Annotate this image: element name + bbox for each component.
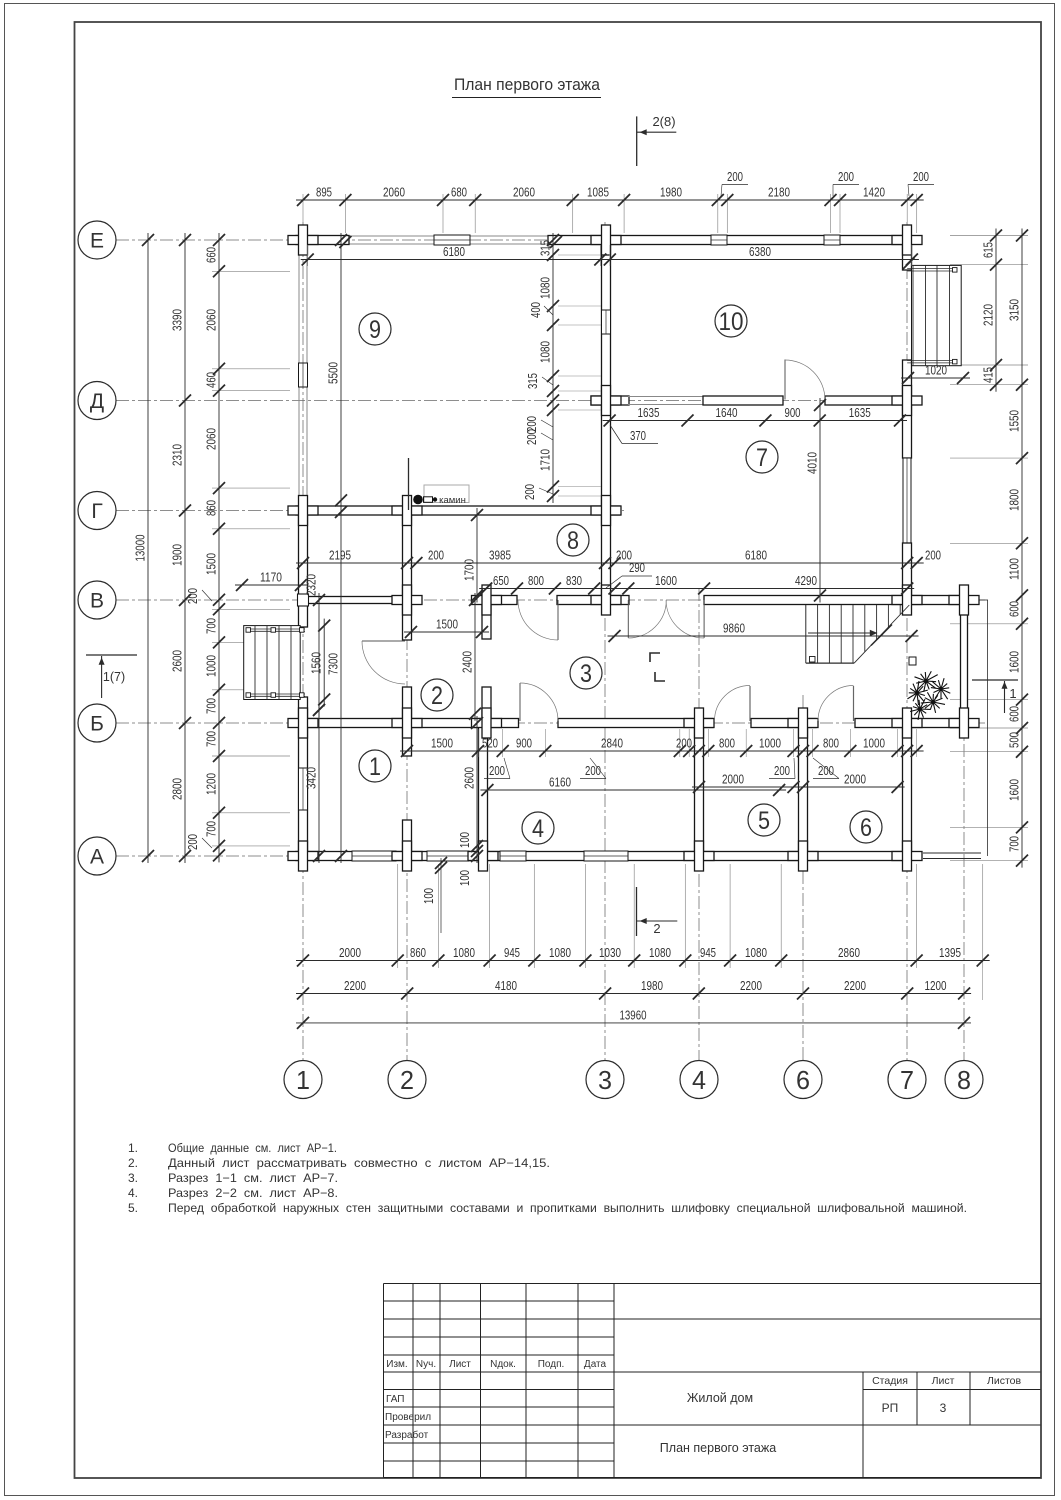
wall V seg0 porch	[307, 597, 403, 604]
svg-text:1080: 1080	[538, 277, 553, 299]
cross 4-A	[684, 852, 714, 861]
svg-text:2: 2	[653, 921, 660, 936]
svg-text:13960: 13960	[620, 1007, 647, 1022]
witness lines top chain	[302, 194, 304, 233]
svg-text:3150: 3150	[1007, 299, 1022, 321]
axis line 7	[906, 222, 908, 1060]
axis line 1	[302, 222, 304, 1060]
svg-text:860: 860	[410, 945, 426, 960]
svg-text:2: 2	[400, 1065, 414, 1095]
axis line D	[116, 400, 913, 402]
gray veranda wall axis1 E-G	[298, 248, 300, 503]
svg-text:5: 5	[758, 807, 770, 835]
svg-text:200: 200	[428, 548, 444, 563]
svg-text:1000: 1000	[759, 736, 781, 751]
svg-text:2060: 2060	[513, 185, 535, 200]
svg-text:1900: 1900	[170, 544, 185, 566]
svg-text:700: 700	[204, 821, 219, 837]
svg-text:945: 945	[700, 945, 716, 960]
double door V 1600 left leaf	[627, 600, 629, 638]
svg-text:Общие данные см. лист АР−1: Общие данные см. лист АР−1.	[168, 1141, 337, 1155]
internal stair room3	[805, 605, 807, 663]
wall E left	[296, 236, 349, 245]
svg-text:3420: 3420	[304, 767, 319, 789]
svg-text:2060: 2060	[204, 309, 219, 331]
svg-text:Разработ: Разработ	[385, 1429, 429, 1441]
svg-text:План первого этажа: План первого этажа	[454, 76, 601, 94]
svg-text:Nуч.: Nуч.	[416, 1359, 436, 1370]
section mark 2(8) top	[636, 116, 638, 166]
svg-text:200: 200	[727, 169, 743, 184]
dim 2400 room2	[474, 593, 476, 721]
cross 7-B	[892, 719, 922, 728]
axis line A	[116, 855, 913, 857]
svg-text:800: 800	[823, 736, 839, 751]
chain 650-800-830 y588	[479, 588, 914, 590]
svg-text:Стадия: Стадия	[872, 1375, 908, 1387]
svg-text:2310: 2310	[170, 444, 185, 466]
left chain total 13000	[147, 233, 149, 863]
title block	[384, 1283, 615, 1285]
bottom chain axes	[296, 993, 971, 995]
wall axis8 V-B	[961, 600, 968, 723]
svg-text:200: 200	[838, 169, 854, 184]
section mark 1(7) left	[86, 654, 137, 656]
dim 4010 room7	[819, 398, 821, 603]
svg-text:700: 700	[204, 618, 219, 634]
cross 2-A	[392, 852, 422, 861]
witness lines bottom chain	[397, 864, 399, 968]
svg-text:Лист: Лист	[932, 1375, 955, 1387]
svg-text:4.: 4.	[128, 1186, 138, 1200]
wall V terrace	[911, 596, 964, 605]
window band D (gray)	[628, 396, 704, 398]
wall D seg2	[703, 396, 783, 405]
svg-text:1080: 1080	[453, 945, 475, 960]
wall E right	[548, 236, 912, 245]
svg-text:4: 4	[532, 815, 544, 843]
svg-text:315: 315	[525, 373, 540, 389]
wall B seg3	[751, 719, 816, 728]
svg-text:5.: 5.	[128, 1201, 138, 1215]
svg-text:700: 700	[1007, 836, 1022, 852]
door V 800	[557, 600, 559, 640]
svg-text:900: 900	[785, 405, 801, 420]
svg-text:200: 200	[489, 763, 505, 778]
dim 1170 porch	[235, 584, 308, 586]
cross 1-B	[288, 719, 318, 728]
svg-text:600: 600	[1007, 706, 1022, 722]
wall axis2 lower	[403, 820, 412, 856]
svg-text:290: 290	[629, 560, 645, 575]
section mark 2 bottom	[636, 887, 638, 936]
svg-text:1: 1	[1009, 686, 1016, 701]
right chain detail stair	[995, 229, 997, 392]
svg-text:370: 370	[630, 428, 646, 443]
svg-text:В: В	[90, 590, 104, 613]
dim 6160 room4	[480, 789, 786, 791]
svg-text:415: 415	[981, 367, 996, 383]
svg-text:1080: 1080	[649, 945, 671, 960]
svg-text:1(7): 1(7)	[103, 670, 125, 684]
door room1 axis2	[362, 640, 405, 642]
axis circles bottom	[284, 1061, 322, 1099]
wall axis4 B-A	[695, 723, 704, 856]
svg-text:1420: 1420	[863, 185, 885, 200]
svg-text:100: 100	[457, 870, 472, 886]
svg-text:РП: РП	[882, 1401, 899, 1415]
svg-text:7300: 7300	[326, 653, 341, 675]
cross 2-V	[392, 596, 422, 605]
svg-text:3: 3	[940, 1401, 947, 1415]
svg-text:900: 900	[516, 736, 532, 751]
svg-text:Nдок.: Nдок.	[490, 1359, 516, 1370]
axis line 4	[698, 588, 700, 1060]
svg-text:200: 200	[913, 169, 929, 184]
svg-text:2000: 2000	[844, 772, 866, 787]
svg-text:3985: 3985	[489, 548, 511, 563]
dim 1560 stair	[323, 619, 325, 707]
terrace edge thin at V	[979, 599, 988, 601]
svg-text:200: 200	[676, 736, 692, 751]
block at V on axis1 wall	[298, 594, 309, 606]
svg-text:2(8): 2(8)	[652, 114, 675, 129]
svg-text:4290: 4290	[795, 573, 817, 588]
window on axis1 wall below B	[299, 768, 308, 810]
svg-text:1200: 1200	[204, 773, 219, 795]
witness lines B chain	[477, 729, 479, 757]
wall axis7 window-V	[903, 543, 912, 600]
wall V seg2	[557, 596, 629, 605]
svg-text:200: 200	[585, 763, 601, 778]
svg-text:460: 460	[204, 372, 219, 388]
svg-text:1080: 1080	[745, 945, 767, 960]
dim 6180 room9	[301, 259, 608, 261]
svg-text:315: 315	[538, 240, 553, 256]
dim 9860	[608, 635, 919, 637]
svg-text:2200: 2200	[740, 978, 762, 993]
svg-text:7: 7	[756, 444, 768, 472]
svg-text:2400: 2400	[460, 651, 475, 673]
cross V stub	[472, 596, 502, 605]
svg-text:ГАП: ГАП	[386, 1394, 405, 1405]
svg-text:6: 6	[860, 814, 872, 842]
wall axis1 G-stair	[299, 511, 308, 628]
axis line B	[116, 722, 985, 724]
svg-text:Перед обработкой наружных с: Перед обработкой наружных стен защитными…	[168, 1201, 967, 1215]
terrace south edge double line	[923, 852, 981, 854]
svg-text:400: 400	[528, 302, 543, 318]
svg-text:1: 1	[369, 753, 381, 781]
svg-text:4180: 4180	[495, 978, 517, 993]
wall A	[296, 852, 912, 861]
vertical chain x553 windows room9	[552, 233, 554, 503]
cross 7-D	[892, 396, 922, 405]
svg-text:10: 10	[719, 308, 744, 336]
window A1	[352, 851, 396, 861]
furniture corner marks room3	[650, 653, 660, 662]
cross 1-A	[288, 852, 318, 861]
svg-text:1600: 1600	[655, 573, 677, 588]
wall B seg4	[855, 719, 964, 728]
svg-text:1200: 1200	[925, 978, 947, 993]
svg-text:5500: 5500	[326, 362, 341, 384]
window on x606 wall	[602, 310, 611, 334]
right chain outer	[1021, 229, 1023, 868]
witness for 6180/6380	[307, 245, 309, 266]
svg-text:1500: 1500	[431, 736, 453, 751]
svg-text:Жилой дом: Жилой дом	[687, 1391, 753, 1405]
bottom chain total 13960	[296, 1022, 971, 1024]
axis line 8	[963, 590, 965, 1060]
svg-text:100: 100	[421, 888, 436, 904]
cross A stub	[468, 852, 498, 861]
bottom chain detail	[296, 960, 990, 962]
svg-text:План первого этажа: План первого этажа	[660, 1441, 776, 1455]
svg-text:1170: 1170	[260, 570, 282, 585]
axis line 2	[406, 505, 408, 1060]
svg-text:1080: 1080	[549, 945, 571, 960]
svg-text:1085: 1085	[587, 185, 609, 200]
wall D seg3	[825, 396, 912, 405]
axis circles left	[78, 221, 116, 259]
top-right external stair	[912, 265, 962, 365]
svg-text:3: 3	[598, 1065, 612, 1095]
wall B seg2	[558, 719, 713, 728]
svg-text:1600: 1600	[1007, 651, 1022, 673]
svg-text:830: 830	[566, 573, 582, 588]
axis line 3	[604, 222, 606, 1060]
svg-text:2600: 2600	[462, 767, 477, 789]
svg-text:Е: Е	[90, 230, 104, 253]
veranda gray wall on axis E	[347, 235, 549, 237]
svg-text:2: 2	[431, 682, 443, 710]
svg-text:200: 200	[925, 548, 941, 563]
left porch stair	[244, 626, 301, 700]
svg-text:200: 200	[524, 429, 539, 445]
svg-text:945: 945	[504, 945, 520, 960]
axis line 6	[802, 695, 804, 1060]
svg-text:Подп.: Подп.	[538, 1359, 565, 1370]
witness lines right chain	[950, 235, 1028, 237]
svg-text:Б: Б	[90, 713, 104, 736]
axis line V	[116, 599, 985, 601]
dim 100 near section2	[440, 858, 442, 933]
svg-text:700: 700	[204, 698, 219, 714]
wall V seg1	[482, 596, 517, 605]
wall V seg3	[704, 596, 912, 605]
svg-text:895: 895	[316, 185, 332, 200]
window on axis1 wall	[299, 363, 308, 387]
svg-text:Проверил: Проверил	[385, 1412, 431, 1423]
svg-text:2195: 2195	[329, 548, 351, 563]
svg-text:800: 800	[528, 573, 544, 588]
svg-text:200: 200	[185, 588, 200, 604]
svg-text:Изм.: Изм.	[386, 1359, 407, 1370]
dim 2320	[318, 593, 320, 717]
svg-text:200: 200	[185, 834, 200, 850]
cross 8-V	[949, 596, 979, 605]
svg-text:1020: 1020	[925, 363, 947, 378]
svg-text:Листов: Листов	[987, 1375, 1022, 1387]
terrace east edge thin	[987, 600, 989, 856]
cross 6-B	[788, 719, 818, 728]
svg-text:Разрез 2−2 см. лист АР−8.: Разрез 2−2 см. лист АР−8.	[168, 1186, 338, 1200]
svg-text:1100: 1100	[1007, 558, 1022, 580]
cross 6-A	[788, 852, 818, 861]
dim 1500 room2	[404, 631, 489, 633]
svg-text:1710: 1710	[538, 449, 553, 471]
top dim chain detail	[296, 199, 924, 201]
svg-text:8: 8	[957, 1065, 971, 1095]
dim 1700	[476, 508, 478, 603]
door B room3	[519, 683, 521, 721]
door B room5	[749, 686, 751, 721]
cross 7-V	[892, 596, 922, 605]
window E2	[711, 235, 727, 245]
door jamb axis2	[403, 687, 412, 756]
svg-text:860: 860	[204, 500, 219, 516]
gate post square on terrace	[909, 657, 916, 665]
cross 7-A	[892, 852, 922, 861]
window axis7 wall	[903, 458, 911, 543]
stair cut line	[854, 605, 909, 663]
svg-text:600: 600	[1007, 601, 1022, 617]
door D wall room10	[784, 360, 786, 400]
wall stub x486.5 lower	[482, 687, 491, 723]
wall axis7 B-A	[903, 723, 912, 856]
cross 1-E	[288, 236, 318, 245]
decorative plant on terrace	[915, 671, 938, 692]
svg-text:4: 4	[692, 1065, 706, 1095]
svg-text:9: 9	[369, 316, 381, 344]
cross 3-G	[591, 506, 621, 515]
cross 3-E	[591, 236, 621, 245]
mid chain 2195-200-3985-200-6180-200 at y563	[296, 562, 924, 564]
wall axis1 stair-A	[299, 697, 308, 856]
svg-text:6180: 6180	[745, 548, 767, 563]
svg-text:200: 200	[522, 484, 537, 500]
svg-text:200: 200	[774, 763, 790, 778]
svg-text:1030: 1030	[599, 945, 621, 960]
svg-text:1000: 1000	[204, 655, 219, 677]
svg-text:6180: 6180	[443, 244, 465, 259]
svg-text:2120: 2120	[981, 304, 996, 326]
svg-text:6160: 6160	[549, 775, 571, 790]
cross 1-G	[288, 506, 318, 515]
wall G	[296, 506, 620, 515]
wall axis7 D-window	[903, 360, 912, 458]
svg-text:1500: 1500	[436, 617, 458, 632]
chain B wall y751	[400, 750, 924, 752]
svg-text:3390: 3390	[170, 309, 185, 331]
svg-text:4010: 4010	[805, 452, 820, 474]
fireplace kamin	[424, 485, 469, 503]
svg-text:100: 100	[457, 832, 472, 848]
svg-text:1500: 1500	[204, 553, 219, 575]
cross 7-E	[892, 236, 922, 245]
svg-text:Разрез 1−1 см. лист АР−7.: Разрез 1−1 см. лист АР−7.	[168, 1171, 338, 1185]
svg-text:1700: 1700	[462, 559, 477, 581]
svg-text:1600: 1600	[1007, 779, 1022, 801]
svg-text:1980: 1980	[660, 185, 682, 200]
witness lines left detail chain	[212, 270, 290, 272]
wall rooms9-10 x606 E-G	[602, 240, 611, 511]
wall axis2 G-V	[403, 511, 412, 601]
svg-text:2860: 2860	[838, 945, 860, 960]
svg-text:1395: 1395	[939, 945, 961, 960]
svg-text:1640: 1640	[716, 405, 738, 420]
svg-text:700: 700	[204, 731, 219, 747]
cross 2-G	[392, 506, 422, 515]
svg-text:2180: 2180	[768, 185, 790, 200]
svg-text:660: 660	[204, 247, 219, 263]
wall axis6 B-A	[799, 723, 808, 856]
svg-text:1000: 1000	[863, 736, 885, 751]
left chain axes	[184, 233, 186, 863]
section mark 1 right	[972, 679, 1018, 681]
svg-text:1980: 1980	[641, 978, 663, 993]
svg-text:200: 200	[818, 763, 834, 778]
window A3	[500, 851, 526, 861]
dims 2000 2000 rooms5-6	[692, 786, 801, 788]
wall D seg1	[591, 396, 629, 405]
svg-text:А: А	[90, 846, 104, 869]
left chain detail	[218, 233, 220, 862]
fireplace flue line	[408, 458, 410, 510]
cross 3-V	[591, 596, 621, 605]
svg-text:1800: 1800	[1007, 489, 1022, 511]
wall rooms1-4 x483	[479, 723, 488, 856]
svg-text:3: 3	[580, 660, 592, 688]
svg-text:615: 615	[981, 242, 996, 258]
wall-level ticks on E wall	[339, 236, 351, 248]
axis line G	[116, 510, 624, 512]
svg-text:6380: 6380	[749, 244, 771, 259]
svg-text:2000: 2000	[722, 772, 744, 787]
svg-text:3.: 3.	[128, 1171, 138, 1185]
vertical chain x477 2600-100-100	[476, 716, 478, 863]
dims 5500 7300	[340, 233, 342, 863]
svg-text:13000: 13000	[133, 535, 148, 562]
wall axis7 E stub	[903, 236, 912, 270]
svg-text:800: 800	[719, 736, 735, 751]
svg-text:7: 7	[900, 1065, 914, 1095]
svg-text:500: 500	[1007, 732, 1022, 748]
wall room8 right x606	[602, 511, 611, 601]
svg-text:2000: 2000	[339, 945, 361, 960]
room circles	[359, 313, 391, 345]
axis line E	[116, 239, 912, 241]
svg-text:Дата: Дата	[584, 1359, 607, 1370]
svg-text:Г: Г	[91, 500, 102, 523]
cross 3-D	[591, 396, 621, 405]
cross 8-B	[949, 719, 979, 728]
svg-text:2840: 2840	[601, 736, 623, 751]
svg-text:680: 680	[451, 185, 467, 200]
window A4	[584, 851, 628, 861]
cross 2-B	[392, 719, 422, 728]
double door V 1600 right leaf	[703, 600, 705, 638]
cross 4-B	[684, 719, 714, 728]
svg-text:1: 1	[296, 1065, 310, 1095]
svg-text:2060: 2060	[383, 185, 405, 200]
dim 6380 room10	[603, 259, 919, 261]
dim chain D wall 1635-1640-900-1635	[603, 420, 907, 422]
witness lines for x553 chain	[558, 254, 601, 256]
svg-text:1.: 1.	[128, 1141, 138, 1155]
svg-text:Д: Д	[90, 390, 104, 413]
